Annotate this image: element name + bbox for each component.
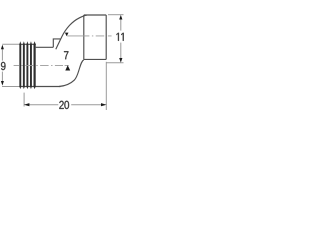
socket left face bbox=[83, 15, 85, 59]
label 20 bbox=[59, 101, 63, 109]
arrow 9 top bbox=[1, 45, 4, 50]
extension line 11 bottom bbox=[106, 62, 123, 64]
lower S-curve (bend lower wall) bbox=[59, 60, 84, 87]
extension line 20 left bbox=[23, 93, 25, 107]
dimension line 9 (vertical) bbox=[1, 49, 3, 61]
extension line bottom-left (dim 9 bottom) bbox=[2, 86, 20, 88]
label 11 bbox=[117, 33, 119, 41]
dim 7 top arrow (points down at upper centerline) bbox=[65, 33, 69, 37]
fin 5 (seal end, thicker) bbox=[34, 41, 36, 89]
fin 2 bbox=[23, 41, 25, 89]
fin 1 bbox=[19, 41, 21, 89]
background bbox=[0, 0, 125, 125]
arrow 11 top bbox=[119, 15, 122, 20]
arrow 20 left bbox=[24, 103, 30, 106]
pipe top edge bbox=[36, 46, 54, 48]
extension line 20 right bbox=[105, 62, 107, 110]
centerline lower pipe bbox=[14, 64, 69, 66]
upper S-curve (bend outer wall) bbox=[56, 15, 87, 49]
stop collar bbox=[53, 39, 60, 47]
bottom edge line (pipe bottom) bbox=[19, 86, 60, 88]
dimension line 11 bbox=[120, 19, 122, 31]
arrow 11 bottom bbox=[119, 58, 122, 63]
dimension line 20 bbox=[29, 104, 58, 106]
fin 4 bbox=[30, 41, 32, 89]
arrow 20 right bbox=[101, 103, 107, 106]
extension line 11 top bbox=[108, 14, 124, 16]
label 9 bbox=[1, 62, 6, 70]
fin shoulder top line bbox=[19, 43, 35, 45]
fin 3 bbox=[26, 41, 28, 89]
socket top edge bbox=[84, 14, 106, 16]
socket bottom edge bbox=[84, 58, 106, 60]
extension line top-left (dim 9 top) bbox=[2, 43, 19, 45]
label 7 bbox=[64, 51, 68, 59]
socket right edge bbox=[105, 15, 107, 59]
arrow 9 bottom bbox=[1, 81, 4, 86]
dim 7 bottom arrow (points up at lower centerline) bbox=[65, 65, 70, 70]
centerline upper socket bbox=[67, 35, 111, 37]
